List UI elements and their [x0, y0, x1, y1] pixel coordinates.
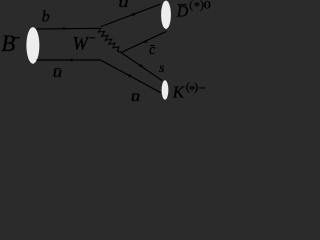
label ubar spectator	[53, 64, 63, 80]
wire u quark line	[101, 4, 160, 26]
svg-text:): )	[194, 80, 198, 94]
svg-text:K: K	[172, 82, 186, 101]
label Dbar(*)0	[176, 0, 211, 21]
boson W zigzag line	[98, 28, 121, 52]
wire b quark line	[37, 27, 102, 30]
arrow on cbar line (down-left toward vertex)	[143, 40, 148, 43]
arrow on s line (down-right)	[139, 64, 144, 68]
svg-text:B: B	[1, 31, 15, 56]
arrow on ubar diagonal (up-left)	[127, 74, 132, 78]
label cbar	[149, 42, 156, 58]
svg-text:W: W	[73, 35, 90, 55]
arrow on ubar spectator (left)	[68, 58, 72, 61]
wire s quark line	[121, 53, 162, 81]
blob D meson	[161, 1, 171, 29]
wire cbar antiquark line	[121, 31, 167, 52]
svg-text:c: c	[149, 42, 156, 58]
svg-text:0: 0	[204, 0, 211, 11]
svg-text:D: D	[176, 4, 189, 21]
svg-text:u: u	[118, 0, 128, 10]
blob B meson	[26, 27, 39, 64]
wire ubar spectator line horizontal	[37, 59, 101, 61]
label ubar near K blob	[131, 88, 141, 104]
label K(*)-	[172, 80, 206, 102]
arrow on u line (up-right)	[132, 13, 137, 16]
svg-text:u: u	[131, 88, 141, 104]
blob K meson	[162, 80, 169, 99]
label W-	[73, 35, 96, 55]
arrow on b line (right)	[63, 27, 68, 30]
wire ubar spectator line diagonal	[100, 60, 161, 93]
svg-text:u: u	[53, 64, 63, 80]
label B- (incoming meson)	[1, 31, 20, 56]
svg-text:(: (	[189, 0, 193, 11]
svg-text:s: s	[159, 60, 164, 75]
svg-text:b: b	[42, 9, 50, 26]
